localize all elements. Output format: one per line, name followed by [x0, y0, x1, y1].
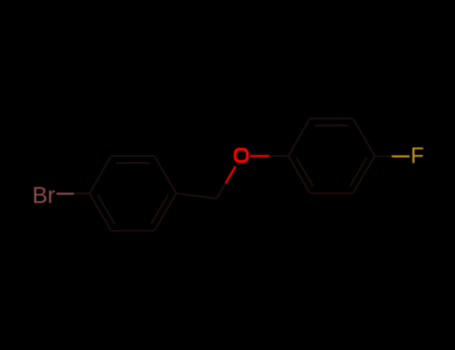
wire V3-V4 — [353, 119, 375, 156]
wire W3-W4 — [154, 156, 176, 193]
bond CH2-O (carbon half) — [217, 183, 226, 199]
wire V5-V6 — [310, 192, 353, 194]
bond Br-C (bromine half) — [57, 193, 75, 195]
wire V6-V1 — [288, 156, 310, 193]
wire W4-W5 — [154, 193, 176, 230]
wire W2-W3 — [111, 155, 154, 157]
bond O-Ar (carbon half) — [269, 155, 288, 157]
wire W6-W1 — [90, 193, 112, 230]
bond C1-CH2 — [176, 193, 217, 198]
double bond inner top — [116, 162, 150, 164]
svg-text:Br: Br — [32, 182, 55, 208]
benzene ring (left, 4-bromophenyl) — [90, 156, 177, 231]
bond C-F (fluorine half) — [392, 155, 410, 157]
wire W5-W6 — [111, 230, 154, 232]
double bond inner bottom-left — [98, 195, 115, 224]
atom label O — [235, 149, 247, 161]
bond O-Ar (oxygen half) — [250, 155, 270, 157]
bond CH2-O (oxygen half) — [226, 166, 236, 183]
double bond inner bottom-right — [151, 195, 168, 224]
double bond inner top — [314, 125, 348, 127]
double bond inner bottom-left — [296, 157, 313, 186]
svg-text:F: F — [411, 143, 424, 168]
wire W1-W2 — [90, 156, 112, 193]
wire V1-V2 — [288, 119, 310, 156]
bond C-F (carbon half) — [375, 155, 392, 157]
double bond inner bottom-right — [350, 157, 367, 186]
wire V4-V5 — [353, 156, 375, 193]
benzene ring (right, 4-fluorophenyl) — [288, 119, 374, 194]
bond Br-C (carbon half) — [74, 193, 90, 195]
wire V2-V3 — [310, 118, 353, 120]
